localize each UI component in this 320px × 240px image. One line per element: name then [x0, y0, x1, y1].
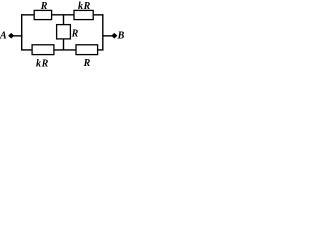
- svg-text:k: k: [78, 1, 83, 12]
- wire: [21, 14, 35, 16]
- node A: [0, 31, 14, 42]
- wire: [98, 49, 104, 51]
- svg-text:A: A: [0, 31, 7, 42]
- wire: [21, 14, 23, 50]
- wire: [13, 35, 23, 37]
- resistor R1: [34, 10, 51, 19]
- wire: [102, 14, 104, 50]
- svg-text:R: R: [40, 1, 48, 12]
- resistor R4: [76, 45, 98, 55]
- node B: [111, 31, 124, 42]
- wire: [103, 35, 113, 37]
- resistor R3: [32, 45, 54, 55]
- wire: [54, 49, 76, 51]
- svg-text:R: R: [71, 28, 79, 39]
- wire: [21, 49, 32, 51]
- svg-text:B: B: [117, 31, 125, 42]
- wire: [63, 15, 65, 25]
- wire: [52, 14, 75, 16]
- svg-text:R: R: [83, 1, 91, 12]
- resistor R5: [57, 25, 71, 39]
- svg-text:k: k: [36, 58, 41, 69]
- wire: [93, 14, 103, 16]
- resistor R2: [74, 10, 93, 19]
- svg-text:R: R: [83, 58, 91, 69]
- wire: [63, 39, 65, 50]
- svg-text:R: R: [41, 58, 49, 69]
